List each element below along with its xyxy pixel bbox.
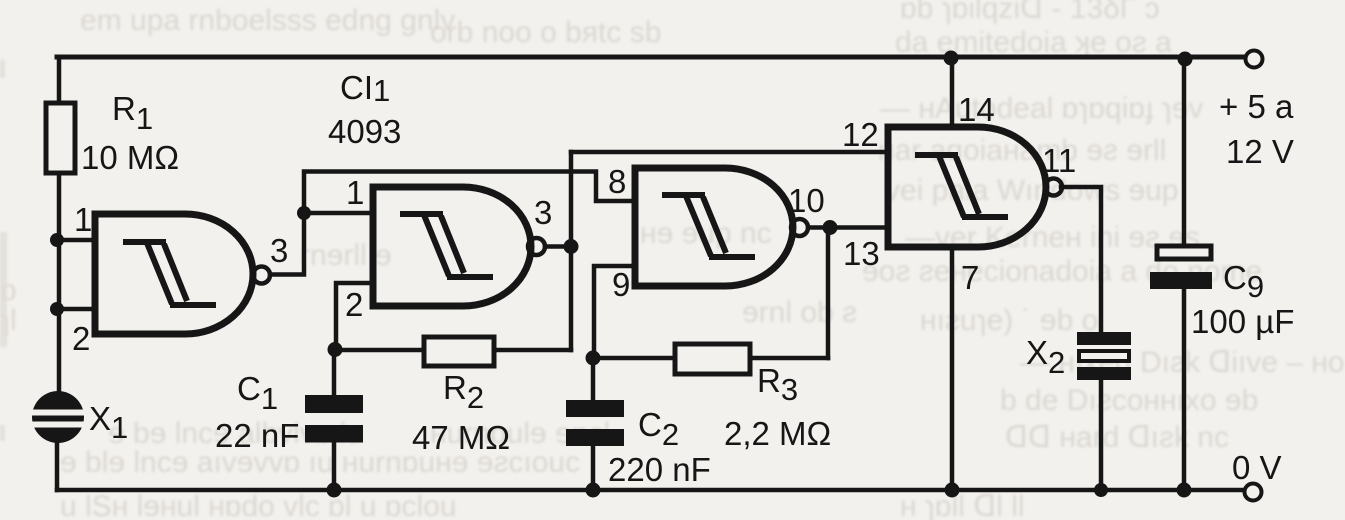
svg-text:12: 12 — [842, 116, 879, 153]
svg-text:10 MΩ: 10 MΩ — [81, 139, 179, 176]
svg-text:3: 3 — [534, 194, 552, 231]
svg-text:da emitedoia ʞe oƨ a: da emitedoia ʞe oƨ a — [895, 26, 1172, 59]
svg-text:0 V: 0 V — [1232, 449, 1282, 486]
svg-text:220 nF: 220 nF — [608, 451, 711, 488]
svg-text:8: 8 — [608, 163, 626, 200]
svg-text:13: 13 — [843, 235, 880, 272]
svg-text:b de Dıƨcoʜʜıxo ɘb: b de Dıƨcoʜʜıxo ɘb — [1000, 384, 1258, 417]
svg-text:14: 14 — [958, 91, 995, 128]
svg-text:7: 7 — [961, 259, 979, 296]
svg-text:u lSʜ lɘʜul ʜɒdo vlc ɒl u: u lSʜ lɘʜul ʜɒdo vlc ɒl u ɒclou — [60, 490, 457, 520]
svg-text:ɒb ɿɒilqziᗡ - 13δΓ ɔ: ɒb ɿɒilqziᗡ - 13δΓ ɔ — [900, 0, 1160, 25]
svg-text:+ 5 a: + 5 a — [1219, 88, 1294, 125]
svg-text:10: 10 — [788, 182, 825, 219]
svg-text:vei paia Wındows ɘup: vei paia Wındows ɘup — [885, 174, 1179, 207]
svg-text:1: 1 — [346, 174, 364, 211]
svg-text:3: 3 — [270, 232, 288, 269]
svg-text:11: 11 — [1042, 142, 1076, 179]
svg-text:22 nF: 22 nF — [215, 417, 299, 454]
svg-text:100 µF: 100 µF — [1191, 303, 1294, 340]
svg-text:— ʜAutodeal ɒɿɒqiɒɟ ɿɘv: — ʜAutodeal ɒɿɒqiɒɟ ɿɘv — [880, 92, 1203, 125]
svg-text:2: 2 — [345, 286, 363, 323]
svg-text:9: 9 — [612, 266, 630, 303]
svg-text:orb noo o bяtc sb: orb noo o bяtc sb — [430, 16, 661, 49]
svg-text:12 V: 12 V — [1226, 133, 1294, 170]
svg-text:47 MΩ: 47 MΩ — [412, 419, 510, 456]
svg-text:ᗡᗡ ʜard ᗡıƨk nc: ᗡᗡ ʜard ᗡıƨk nc — [1005, 421, 1229, 454]
svg-text:4093: 4093 — [328, 113, 401, 150]
svg-text:ʜıƨuɿe) ˙ ɘb o: ʜıƨuɿe) ˙ ɘb o — [920, 304, 1098, 337]
svg-text:ʜ ɿɒll ᗡl ll: ʜ ɿɒll ᗡl ll — [900, 490, 1025, 520]
svg-text:1: 1 — [74, 201, 92, 238]
svg-text:rnɘrll ɘ: rnɘrll ɘ — [300, 239, 392, 272]
svg-text:em upa rnboelsss edng gnlv: em upa rnboelsss edng gnlv — [80, 4, 455, 37]
svg-text:2,2 MΩ: 2,2 MΩ — [724, 415, 831, 452]
svg-text:CI1: CI1 — [340, 69, 390, 108]
svg-text:ɘrnl ob ƨ: ɘrnl ob ƨ — [742, 296, 857, 329]
svg-text:2: 2 — [72, 320, 90, 357]
